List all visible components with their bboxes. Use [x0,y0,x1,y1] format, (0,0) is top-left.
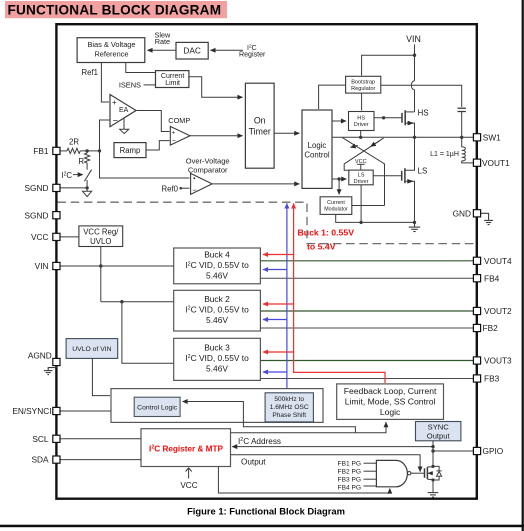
svg-text:FUNCTIONAL BLOCK DIAGRAM: FUNCTIONAL BLOCK DIAGRAM [8,2,222,17]
svg-text:Buck 1: 0.55V: Buck 1: 0.55V [298,228,355,238]
svg-text:FB2: FB2 [483,323,499,333]
wire red VID bus vertical [294,203,385,383]
svg-text:HS: HS [357,115,365,121]
wire GPIO line [433,450,473,452]
svg-text:COMP: COMP [168,116,190,125]
wire junction down to Current Modulator (arrow) [338,179,340,194]
wire SYNC Output down to GPIO node [432,441,434,466]
svg-text:Modulator: Modulator [324,206,348,212]
block Logic Control [302,110,332,188]
svg-text:Rate: Rate [155,37,170,46]
arrow on right-to-left diagonal [371,141,380,147]
block 500kHz OSC [265,393,313,422]
pin SDA [31,455,60,465]
svg-text:Ref1: Ref1 [82,68,98,77]
wire red branch to Buck 4 [263,254,294,256]
svg-text:L1 = 1µH: L1 = 1µH [430,151,459,158]
block Current Modulator [320,197,352,215]
svg-text:Reference: Reference [94,49,128,58]
svg-text:FB4: FB4 [484,273,500,283]
arrow on left-to-right diagonal [351,145,358,147]
svg-text:Feedback Loop, Current: Feedback Loop, Current [344,386,437,396]
wire Ref1 from Bias to EA + input [101,63,109,103]
svg-text:SCL: SCL [32,434,49,444]
wire Logic Control to HS Driver (arrow) [332,120,346,122]
svg-text:I2C VID, 0.55V to: I2C VID, 0.55V to [185,260,249,270]
block Bias & Voltage Reference [77,38,145,63]
wire LS driver bottom to ground line [360,185,362,223]
svg-text:Bias & Voltage: Bias & Voltage [87,40,135,49]
svg-text:FB1 PG: FB1 PG [338,461,361,468]
comparator COMP [170,126,190,145]
block SYNC Output [416,422,461,441]
block Current Limit [156,71,189,88]
svg-text:UVLO: UVLO [90,237,111,246]
pin VIN [35,261,60,271]
block Buck 2 [174,290,261,331]
wire Current Modulator right to house line [352,205,385,207]
diode body [433,466,439,480]
svg-text:GND: GND [453,208,471,218]
svg-text:Register: Register [239,50,266,58]
wire red branch to Buck 3 [263,351,294,353]
pin GPIO [473,446,503,456]
resistor 2R at FB1 [60,138,100,154]
wire HS Driver bottom to SW line [360,131,362,138]
svg-text:Phase Shift: Phase Shift [272,412,306,419]
transistor LS (low-side NMOS) [402,137,415,222]
wire Bootstrap right to bootstrap capacitor (hops over VIN line) [381,85,462,107]
capacitor bootstrap [458,108,466,136]
svg-text:Output: Output [241,458,266,467]
svg-text:1.6MHz OSC: 1.6MHz OSC [270,404,309,411]
node VIN junction [413,54,416,57]
wire COMP output to On Timer [190,135,243,137]
svg-text:SW1: SW1 [483,132,501,142]
wire HS Driver to HS gate [374,117,402,119]
svg-text:VCC: VCC [31,232,49,242]
chip outer boundary box [56,24,476,499]
wire I2C register bottom to NAND (arrow up) [218,467,389,494]
transistor HS (high-side NMOS) [402,110,415,136]
pin SW1 [473,132,501,142]
block LS Driver [349,170,373,185]
svg-text:SGND: SGND [25,210,49,220]
wire hop of VIN line over bootstrap wire [411,81,414,90]
svg-text:5.46V: 5.46V [206,363,228,373]
pin AGND [28,351,60,366]
wire EA output to COMP + [136,111,170,132]
svg-text:−: − [113,115,118,125]
svg-text:I2C Register & MTP: I2C Register & MTP [149,444,223,453]
page bottom rule [0,525,524,528]
pin SCL [32,434,60,444]
wire I2C Address line (arrow into register) [232,446,433,448]
svg-text:ISENS: ISENS [119,80,141,89]
svg-text:Buck 4: Buck 4 [204,250,230,260]
svg-text:FB3 PG: FB3 PG [338,477,361,484]
pin FB2 [473,323,498,333]
wire blue branch to Buck 4 [263,269,287,271]
pin VOUT1 [473,158,510,168]
node I2C address junction [431,445,434,448]
wire FB4 [260,277,473,279]
svg-text:VOUT1: VOUT1 [482,158,510,168]
wire FB1 node to Over-Voltage comparator + [100,151,190,178]
wire cross-coupled feedback diagonal (HS gate to LS driver left) [344,138,384,170]
wire switch to SGND node [86,180,88,188]
wires NAND inputs [364,463,377,486]
node SW junctions [359,136,362,139]
power VCC rail for LS driver [355,159,367,170]
block I2C Register & MTP [141,429,231,467]
ground at EA output stage [123,119,125,130]
transistor GPIO pull-down with body diode [425,465,442,493]
svg-text:I2C Address: I2C Address [238,437,281,446]
ground (open triangle) below switch [86,188,88,191]
comparator Over-Voltage [191,173,213,194]
page title FUNCTIONAL BLOCK DIAGRAM [5,1,227,18]
wire feedback to Control Logic (arrow) [183,402,356,433]
svg-text:−: − [192,185,197,194]
svg-text:HS: HS [418,109,429,118]
svg-text:5.46V: 5.46V [206,271,228,281]
wire red branch to Buck 2 [263,303,294,305]
svg-text:Figure 1: Functional Block Dia: Figure 1: Functional Block Diagram [187,506,345,517]
wire green VOUT4 [260,260,473,262]
wire blue osc bus vertical [286,203,288,392]
labels FB PG inputs [338,461,361,492]
ground under GPIO FET [428,493,439,498]
block On Timer [245,83,274,168]
svg-text:Control Logic: Control Logic [137,404,178,411]
svg-text:On: On [254,116,266,126]
block Bootstrap Regulator [346,76,381,93]
wire UVLO of VIN to control logic container [92,358,110,395]
svg-text:Logic: Logic [308,141,327,150]
wire VIN pin to Buck 4 [60,265,174,267]
svg-text:I2C: I2C [61,171,72,180]
svg-text:UVLO of VIN: UVLO of VIN [72,346,111,353]
svg-text:I2C VID, 0.55V to: I2C VID, 0.55V to [185,353,249,363]
wire cross-coupled feedback diagonal (SW line to LS driver right) [342,138,384,206]
svg-text:Comparator: Comparator [188,166,228,175]
wire EA - to FB1 node [100,120,111,151]
svg-text:Current: Current [327,200,345,206]
pin SGND [25,183,60,193]
svg-text:VIN: VIN [406,34,421,44]
wire SGND pin to ground node [60,187,87,189]
svg-text:VOUT4: VOUT4 [484,256,512,266]
wire LS Driver to LS gate [373,175,402,177]
svg-text:Limit, Mode, SS Control: Limit, Mode, SS Control [345,397,436,407]
svg-text:−: − [172,138,176,145]
wire Ramp to COMP - [146,141,170,150]
pin SGND 2 [25,210,60,220]
svg-text:500kHz to: 500kHz to [274,396,304,403]
svg-text:VCC Reg/: VCC Reg/ [83,228,119,237]
block UVLO of VIN [66,339,118,359]
node ground junction [85,186,88,189]
svg-text:SGND: SGND [25,183,49,193]
wire to Buck 3 [122,302,174,364]
wire Logic Control to LS Driver (arrow) [332,178,346,180]
pin GND [453,208,481,218]
block Buck 3 [174,338,261,380]
ground GND symbol [481,213,493,224]
gate NAND power-good [376,460,411,486]
svg-text:+: + [112,98,117,107]
pin EN/SYNCI [12,406,60,416]
wire Output line to pass FET gate [231,455,421,472]
block Feedback Loop Control [337,384,444,420]
wire VIN down [414,45,416,81]
svg-text:FB3: FB3 [484,374,500,384]
block HS Driver [349,112,375,131]
svg-text:Current: Current [161,73,184,80]
svg-text:R: R [78,157,84,166]
pin VCC [31,232,60,242]
wire SCL to I2C register [60,438,141,440]
node HS gate feedback junction [382,116,385,119]
box control logic container [111,389,323,423]
node LS driver ground junction [359,221,362,224]
svg-text:Over-Voltage: Over-Voltage [186,157,230,166]
block DAC [176,42,208,59]
wire to Buck 2 [101,301,174,303]
node power ground junction [413,221,416,224]
wire FB2 [260,327,473,329]
svg-text:DAC: DAC [183,46,201,56]
svg-text:VOUT2: VOUT2 [484,306,512,316]
wire Current Modulator bottom to power ground [336,214,415,222]
block VCC Reg / UVLO [79,226,123,247]
wire On Timer to Logic Control [274,132,299,134]
wire Bootstrap bottom to HS Driver [361,93,363,110]
wire SW node horizontal (Logic Control to SW1 pin) [332,136,473,138]
svg-text:SDA: SDA [31,455,49,465]
svg-text:GPIO: GPIO [483,446,504,456]
node FB1 junction dots [85,149,88,152]
node GPIO junction [431,449,434,452]
pin FB3 [473,374,499,384]
wire OVC output to Logic Control [212,183,299,185]
wire DAC to Bias with arrow [148,49,177,51]
svg-text:VOUT3: VOUT3 [484,356,512,366]
wire FB3 [260,378,473,380]
wire green VOUT3 [260,360,473,362]
pin VOUT2 [473,306,512,316]
block Ramp [114,143,146,158]
svg-text:Output: Output [427,432,451,441]
wire EN/SYNCI to container [60,410,111,412]
svg-text:Driver: Driver [354,122,369,128]
wire Bootstrap left to Logic Control top [319,85,346,109]
block Control Logic [134,397,180,416]
wire I2C Register to DAC with arrow [211,49,244,51]
svg-text:VIN: VIN [35,261,49,271]
svg-text:Ramp: Ramp [120,146,141,155]
svg-text:VCC: VCC [180,481,197,490]
svg-text:FB4 PG: FB4 PG [338,484,361,491]
pin FB4 [473,273,499,283]
ground AGND symbol [44,366,57,374]
wire blue branch to Buck 3 [263,371,287,373]
node Buck2/3 branch [120,300,123,303]
wire NAND output to FET gate [411,472,425,474]
pin FB1 [33,146,60,156]
svg-text:FB1: FB1 [33,146,49,156]
block Buck 4 [174,248,261,284]
svg-text:Buck 3: Buck 3 [204,342,230,352]
wire ISENS to Current Limit [144,84,156,86]
wire VIN to Bootstrap Regulator top [362,55,415,75]
svg-text:Timer: Timer [249,127,271,137]
wire Bias bottom to Current Limit [126,63,155,73]
wire I2C register to Feedback box (arrow up) [231,422,387,433]
wire VCC pin to VCC Reg box [60,236,79,238]
inductor L1 [430,137,473,163]
wire blue branch to Buck 2 [263,319,287,321]
svg-text:Buck 2: Buck 2 [204,294,230,304]
svg-text:FB2 PG: FB2 PG [338,469,361,476]
svg-text:I2C VID, 0.55V to: I2C VID, 0.55V to [185,304,249,314]
wire green VOUT2 [260,310,473,312]
svg-text:AGND: AGND [28,351,52,361]
svg-text:Limit: Limit [165,80,180,87]
svg-text:LS: LS [418,167,428,176]
svg-text:Regulator: Regulator [351,86,375,92]
svg-text:EA: EA [119,107,129,114]
svg-text:Driver: Driver [354,179,369,185]
dashed boundary of Buck 1 [58,202,476,243]
svg-text:5.46V: 5.46V [206,315,228,325]
ground power (3-bar) [409,222,421,231]
svg-text:Bootstrap: Bootstrap [351,79,375,85]
switch (I2C controlled) at FB1 divider [84,170,91,182]
wire Current Limit to On Timer [189,77,242,97]
svg-text:Logic: Logic [380,407,401,417]
node VIN distribution [99,264,102,267]
op-amp EA [110,95,136,127]
pin VOUT3 [473,356,512,366]
node LS drive junction [337,177,340,180]
resistor R (vertical) [78,151,89,170]
svg-text:Control: Control [304,151,329,160]
pin VOUT4 [473,256,512,266]
svg-text:EN/SYNCI: EN/SYNCI [12,406,51,416]
svg-text:LS: LS [358,172,365,178]
svg-text:2R: 2R [69,138,79,147]
page right border line [522,0,524,531]
wire SDA to I2C register [60,459,141,461]
wire VCC Reg down through VIN node to Buck2/Buck3 [100,247,102,302]
svg-text:+: + [172,130,176,136]
svg-text:Ref0: Ref0 [162,184,179,193]
svg-text:SYNC: SYNC [428,423,450,432]
